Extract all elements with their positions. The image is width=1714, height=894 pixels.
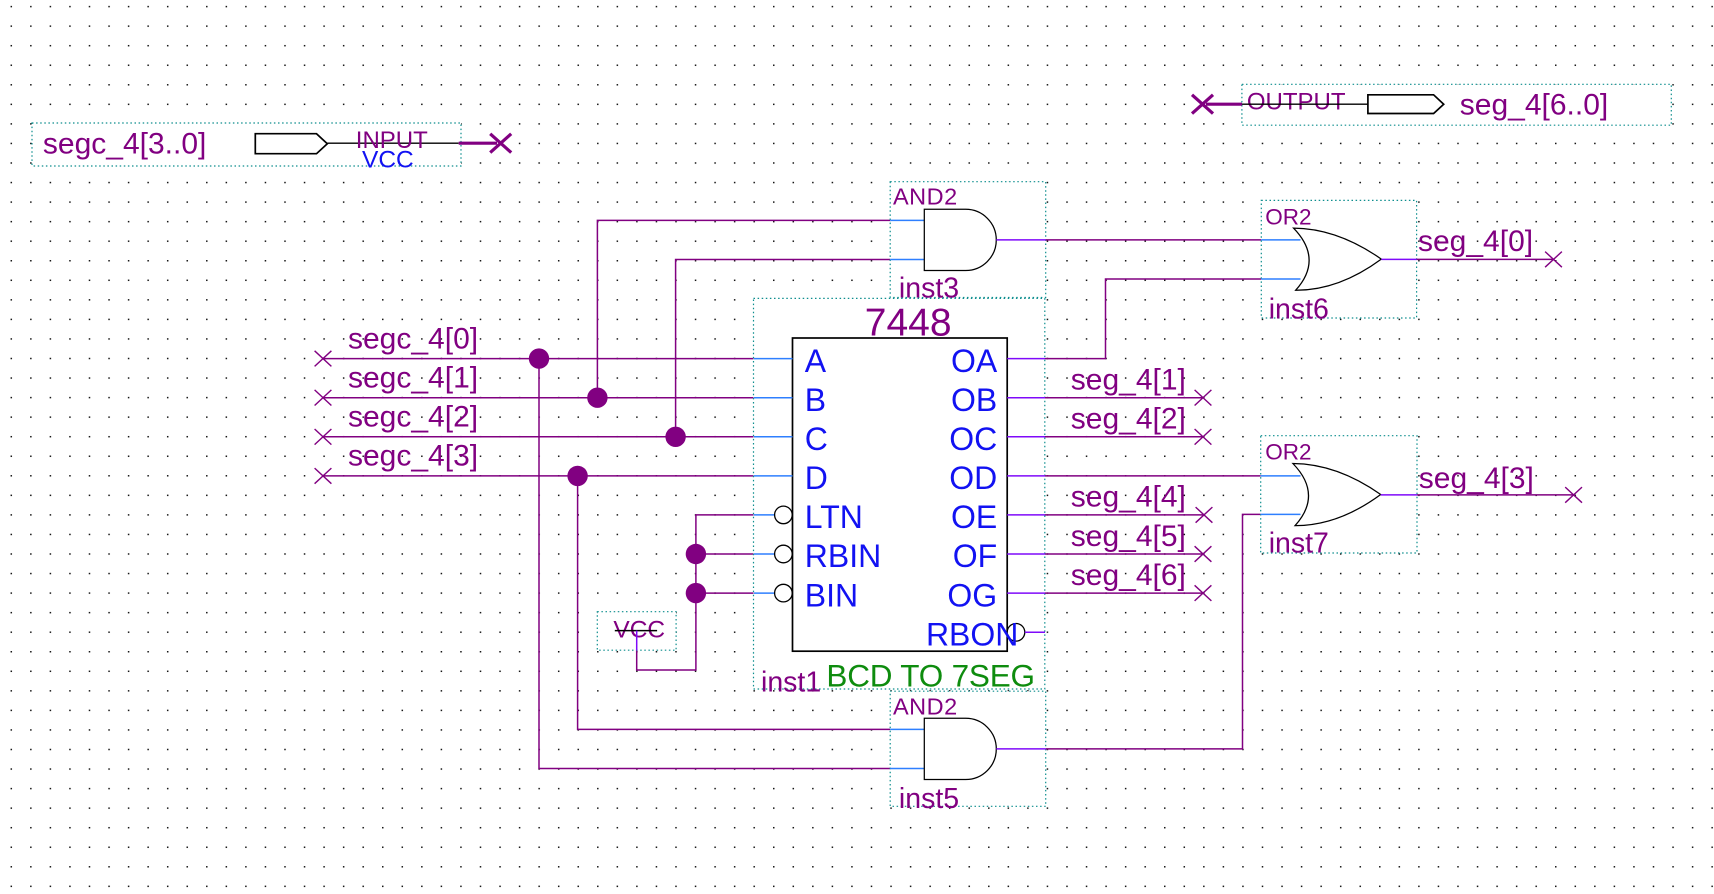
input stubs xyxy=(1261,475,1301,477)
svg-text:OUTPUT: OUTPUT xyxy=(1247,88,1346,115)
svg-text:OR2: OR2 xyxy=(1265,440,1311,465)
wire OA to OR2 inst6 input2 xyxy=(1045,279,1261,359)
svg-text:seg_4[6]: seg_4[6] xyxy=(1071,559,1186,592)
svg-text:LTN: LTN xyxy=(805,499,863,535)
7448 symbol inst1 xyxy=(754,298,1046,698)
svg-text:VCC: VCC xyxy=(362,147,414,174)
input stubs xyxy=(890,728,924,730)
pin B stub xyxy=(754,397,793,399)
svg-text:seg_4[6..0]: seg_4[6..0] xyxy=(1460,88,1608,121)
gate body xyxy=(924,209,996,270)
node X segc_4[1] xyxy=(315,390,332,406)
node X segc_4[3] xyxy=(315,468,332,484)
output stub xyxy=(996,748,1045,750)
wire segc_4[0] branch to AND2 inst5 input2 xyxy=(539,359,890,769)
wire OF seg_4[5] xyxy=(1045,553,1203,555)
node X (input pin open end) xyxy=(490,134,511,153)
svg-text:OA: OA xyxy=(951,343,998,379)
OR2 gate inst7 xyxy=(1261,436,1417,560)
svg-text:segc_4[2]: segc_4[2] xyxy=(348,401,478,434)
node X seg_4[4] xyxy=(1196,507,1213,523)
svg-text:seg_4[2]: seg_4[2] xyxy=(1071,403,1186,436)
svg-text:OG: OG xyxy=(947,577,997,613)
svg-text:D: D xyxy=(805,460,828,496)
node X seg_4[3] xyxy=(1565,487,1582,503)
wire OC seg_4[2] xyxy=(1045,436,1203,438)
svg-text:OR2: OR2 xyxy=(1265,204,1311,229)
pin LTN stub xyxy=(754,514,775,516)
node X segc_4[2] xyxy=(315,429,332,445)
wire (input pin stub) xyxy=(459,142,497,145)
pin OC stub xyxy=(1007,436,1045,438)
wire segc_4[1] xyxy=(323,397,754,399)
svg-text:segc_4[1]: segc_4[1] xyxy=(348,361,478,394)
pin BIN bubble xyxy=(775,584,793,602)
svg-text:B: B xyxy=(805,382,826,418)
svg-text:OB: OB xyxy=(951,382,997,418)
pin OF stub xyxy=(1007,553,1045,555)
AND2 gate inst3 xyxy=(890,182,1045,305)
pin C stub xyxy=(754,436,793,438)
OR2 gate inst6 xyxy=(1261,200,1416,325)
wire OD to OR2 inst7 input1 xyxy=(1045,475,1261,477)
input pin symbol segc_4[3..0] xyxy=(32,123,461,174)
junction segc_4[2] xyxy=(665,427,685,447)
svg-text:AND2: AND2 xyxy=(893,184,958,210)
svg-text:A: A xyxy=(805,343,827,379)
node X seg_4[5] xyxy=(1195,546,1212,562)
wire BIN branch xyxy=(696,592,754,594)
node X seg_4[0] xyxy=(1545,252,1562,268)
wire AND2 inst5 output to OR2 inst7 input2 xyxy=(1046,514,1261,749)
svg-text:RBON: RBON xyxy=(926,616,1018,652)
gate body xyxy=(1293,464,1381,526)
node X seg_4[2] xyxy=(1195,429,1212,445)
junction RBIN xyxy=(686,544,706,564)
node X (output pin open end) xyxy=(1192,95,1213,114)
output pin symbol seg_4[6..0] xyxy=(1242,84,1671,125)
pin RBON bubble xyxy=(1007,624,1025,642)
svg-text:OD: OD xyxy=(949,460,997,496)
svg-text:inst1: inst1 xyxy=(761,667,821,699)
svg-text:inst6: inst6 xyxy=(1269,294,1329,326)
pin OE stub xyxy=(1007,514,1045,516)
pin OD stub xyxy=(1007,475,1045,477)
svg-text:BCD TO 7SEG: BCD TO 7SEG xyxy=(826,658,1034,694)
svg-text:OF: OF xyxy=(953,538,997,574)
svg-text:RBIN: RBIN xyxy=(805,538,881,574)
node X seg_4[6] xyxy=(1195,585,1212,601)
svg-text:seg_4[3]: seg_4[3] xyxy=(1419,462,1534,495)
wire OR2 inst7 output seg_4[3] xyxy=(1417,494,1574,496)
pin BIN stub xyxy=(754,592,775,594)
wire VCC net to LTN/RBIN/BIN xyxy=(637,515,754,670)
node X segc_4[0] xyxy=(315,351,332,367)
node X seg_4[1] xyxy=(1195,390,1212,406)
svg-text:C: C xyxy=(805,421,828,457)
svg-text:seg_4[5]: seg_4[5] xyxy=(1071,520,1186,553)
AND2 gate inst5 xyxy=(890,691,1045,815)
pin D stub xyxy=(754,475,793,477)
pin RBON stub xyxy=(1025,631,1045,633)
output stub xyxy=(996,239,1045,241)
svg-text:segc_4[0]: segc_4[0] xyxy=(348,322,478,355)
svg-text:OE: OE xyxy=(951,499,997,535)
wire OE seg_4[4] xyxy=(1045,514,1204,516)
wire RBIN branch xyxy=(696,553,754,555)
wire segc_4[1] branch to AND2 inst3 input1 xyxy=(597,220,890,397)
wire (output pin stub) xyxy=(1206,103,1242,106)
wire OB seg_4[1] xyxy=(1045,397,1203,399)
gate body xyxy=(1294,228,1382,290)
svg-text:inst5: inst5 xyxy=(899,783,959,815)
pin OB stub xyxy=(1007,397,1045,399)
pin OG stub xyxy=(1007,592,1045,594)
pin RBIN stub xyxy=(754,553,775,555)
svg-text:inst3: inst3 xyxy=(899,273,959,305)
pin RBIN bubble xyxy=(775,545,793,563)
svg-text:VCC: VCC xyxy=(613,616,665,643)
wire segc_4[2] xyxy=(323,436,754,438)
wire segc_4[3] xyxy=(323,475,754,477)
svg-text:BIN: BIN xyxy=(805,577,858,613)
wire segc_4[3] branch to AND2 inst5 input1 xyxy=(578,476,891,729)
svg-text:OC: OC xyxy=(949,421,997,457)
junction BIN xyxy=(686,583,706,603)
junction segc_4[1] xyxy=(587,388,607,408)
wire segc_4[2] branch to AND2 inst3 input2 xyxy=(676,259,891,436)
input stubs xyxy=(890,219,924,221)
pin A stub xyxy=(754,358,793,360)
svg-text:seg_4[4]: seg_4[4] xyxy=(1071,481,1186,514)
junction segc_4[0] xyxy=(529,348,549,368)
svg-text:AND2: AND2 xyxy=(893,693,958,719)
svg-text:segc_4[3..0]: segc_4[3..0] xyxy=(43,128,206,161)
svg-text:seg_4[1]: seg_4[1] xyxy=(1071,364,1186,397)
wire AND2 inst3 output to OR2 inst6 input1 xyxy=(1046,239,1262,241)
wire segc_4[0] xyxy=(323,358,754,360)
VCC power symbol xyxy=(597,612,676,651)
svg-text:inst7: inst7 xyxy=(1269,528,1329,560)
pin LTN bubble xyxy=(775,506,793,524)
pin OA stub xyxy=(1007,358,1045,360)
wire OR2 inst6 output seg_4[0] xyxy=(1417,258,1554,260)
output stub xyxy=(1381,258,1416,260)
output stub xyxy=(1381,494,1417,496)
gate body xyxy=(924,718,996,779)
junction segc_4[3] xyxy=(567,466,587,486)
svg-text:seg_4[0]: seg_4[0] xyxy=(1418,225,1533,258)
svg-text:segc_4[3]: segc_4[3] xyxy=(348,440,478,473)
wire OG seg_4[6] xyxy=(1045,592,1203,594)
input stubs xyxy=(1261,239,1300,241)
